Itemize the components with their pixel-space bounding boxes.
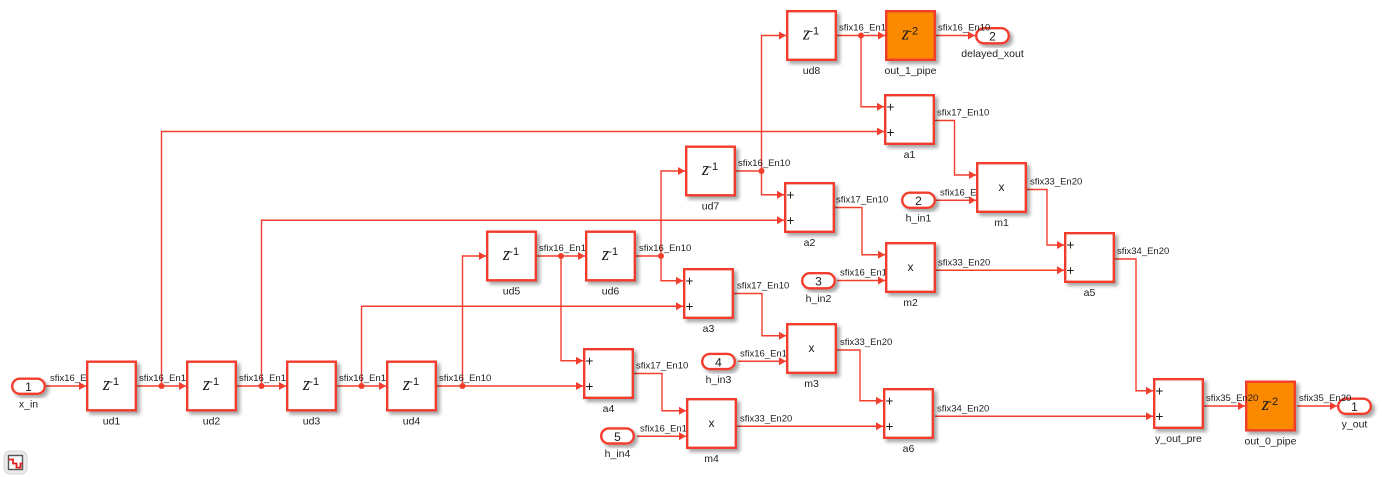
svg-text:sfix34_En20: sfix34_En20	[937, 403, 989, 414]
svg-text:+: +	[686, 299, 694, 314]
svg-text:ud4: ud4	[403, 416, 421, 428]
svg-text:1: 1	[1351, 400, 1358, 414]
svg-text:-1: -1	[608, 246, 618, 258]
svg-text:-1: -1	[509, 246, 519, 258]
svg-text:sfix17_En10: sfix17_En10	[737, 281, 789, 292]
svg-text:m1: m1	[994, 217, 1009, 229]
svg-text:4: 4	[715, 355, 722, 369]
svg-text:+: +	[1156, 409, 1164, 424]
svg-text:+: +	[887, 125, 895, 140]
svg-text:+: +	[886, 393, 894, 408]
svg-text:+: +	[887, 99, 895, 114]
svg-text:sfix35_En20: sfix35_En20	[1299, 393, 1351, 404]
svg-text:delayed_xout: delayed_xout	[961, 48, 1024, 60]
svg-text:1: 1	[25, 380, 32, 394]
svg-text:sfix33_En20: sfix33_En20	[840, 337, 892, 348]
svg-text:h_in1: h_in1	[906, 213, 932, 225]
svg-text:sfix16_En10: sfix16_En10	[738, 158, 790, 169]
svg-text:3: 3	[815, 275, 822, 289]
svg-text:sfix17_En10: sfix17_En10	[636, 361, 688, 372]
svg-text:+: +	[886, 419, 894, 434]
svg-text:ud1: ud1	[103, 416, 121, 428]
svg-text:a5: a5	[1084, 287, 1096, 299]
svg-text:-2: -2	[908, 26, 918, 38]
svg-text:sfix16_En10: sfix16_En10	[640, 423, 692, 434]
svg-text:sfix16_En10: sfix16_En10	[539, 243, 591, 254]
svg-text:ud3: ud3	[303, 416, 321, 428]
svg-text:x: x	[999, 180, 1005, 194]
svg-text:h_in4: h_in4	[605, 448, 631, 460]
svg-text:y_out_pre: y_out_pre	[1155, 433, 1202, 445]
svg-text:+: +	[787, 213, 795, 228]
svg-text:ud8: ud8	[803, 65, 821, 77]
svg-text:+: +	[1067, 237, 1075, 252]
svg-text:sfix17_En10: sfix17_En10	[937, 108, 989, 119]
svg-text:+: +	[686, 273, 694, 288]
svg-text:a1: a1	[904, 149, 916, 161]
svg-text:sfix33_En20: sfix33_En20	[740, 413, 792, 424]
svg-text:+: +	[1156, 383, 1164, 398]
svg-text:a2: a2	[804, 237, 816, 249]
svg-text:5: 5	[614, 430, 621, 444]
svg-text:sfix17_En10: sfix17_En10	[836, 195, 888, 206]
svg-text:sfix16_En10: sfix16_En10	[339, 373, 391, 384]
svg-text:out_1_pipe: out_1_pipe	[885, 65, 937, 77]
svg-text:h_in2: h_in2	[806, 293, 832, 305]
svg-text:sfix16_En10: sfix16_En10	[439, 373, 491, 384]
svg-text:sfix16_En10: sfix16_En10	[840, 268, 892, 279]
svg-text:x: x	[709, 416, 715, 430]
svg-text:-1: -1	[109, 376, 119, 388]
svg-text:ud2: ud2	[203, 416, 221, 428]
svg-text:m2: m2	[903, 297, 918, 309]
svg-text:ud6: ud6	[602, 286, 620, 298]
svg-text:sfix33_En20: sfix33_En20	[1030, 177, 1082, 188]
svg-text:ud7: ud7	[702, 201, 720, 213]
svg-text:-2: -2	[1268, 396, 1278, 408]
svg-text:-1: -1	[708, 161, 718, 173]
svg-text:sfix16_En10: sfix16_En10	[639, 243, 691, 254]
svg-text:x: x	[809, 341, 815, 355]
svg-text:sfix16_En10: sfix16_En10	[239, 373, 291, 384]
svg-text:-1: -1	[409, 376, 419, 388]
svg-text:+: +	[586, 353, 594, 368]
svg-text:-1: -1	[309, 376, 319, 388]
svg-text:a4: a4	[603, 403, 615, 415]
svg-text:m4: m4	[704, 453, 719, 465]
svg-text:y_out: y_out	[1342, 419, 1368, 431]
svg-text:sfix16_En10: sfix16_En10	[938, 23, 990, 34]
svg-text:+: +	[586, 379, 594, 394]
svg-text:sfix35_En20: sfix35_En20	[1206, 393, 1258, 404]
svg-text:2: 2	[915, 194, 922, 208]
svg-text:x: x	[908, 260, 914, 274]
svg-text:a6: a6	[903, 443, 915, 455]
svg-text:ud5: ud5	[503, 286, 521, 298]
svg-text:sfix34_En20: sfix34_En20	[1117, 246, 1169, 257]
svg-text:sfix16_En10: sfix16_En10	[139, 373, 191, 384]
svg-text:x_in: x_in	[19, 399, 38, 411]
svg-text:-1: -1	[809, 26, 819, 38]
svg-text:out_0_pipe: out_0_pipe	[1245, 436, 1297, 448]
svg-text:sfix33_En20: sfix33_En20	[938, 257, 990, 268]
svg-text:a3: a3	[703, 323, 715, 335]
svg-text:+: +	[787, 187, 795, 202]
svg-text:+: +	[1067, 263, 1075, 278]
svg-text:sfix16_En10: sfix16_En10	[740, 348, 792, 359]
svg-text:m3: m3	[804, 378, 819, 390]
svg-text:h_in3: h_in3	[706, 374, 732, 386]
svg-text:sfix16_En10: sfix16_En10	[839, 23, 891, 34]
svg-text:-1: -1	[209, 376, 219, 388]
